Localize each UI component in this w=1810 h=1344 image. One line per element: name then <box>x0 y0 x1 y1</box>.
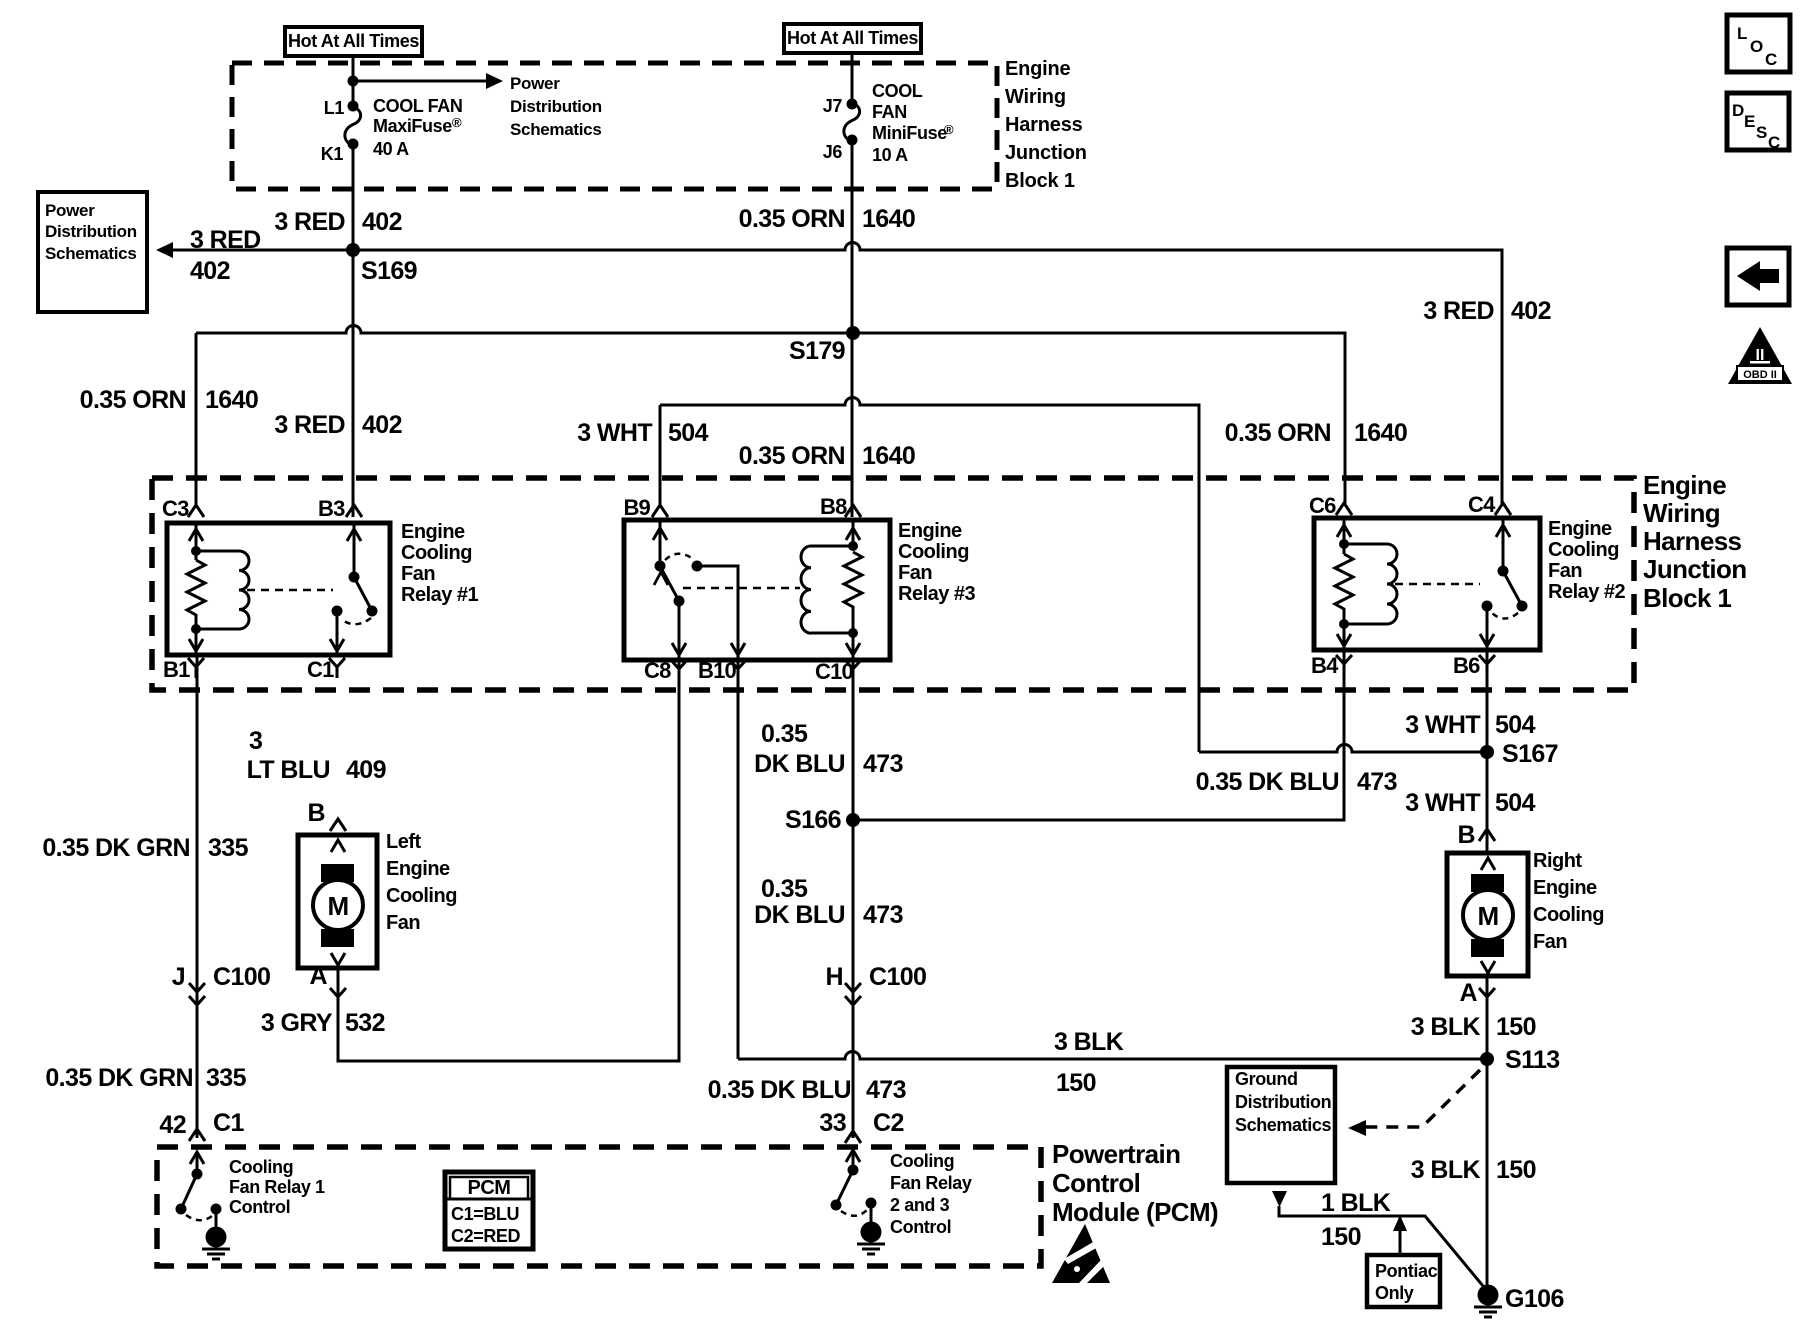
svg-text:3 RED: 3 RED <box>274 208 345 236</box>
svg-text:504: 504 <box>1495 789 1536 817</box>
svg-text:Engine: Engine <box>1005 58 1071 80</box>
svg-text:E: E <box>1744 112 1755 131</box>
svg-text:B: B <box>1458 821 1475 849</box>
svg-text:Control: Control <box>229 1197 290 1217</box>
svg-text:B: B <box>308 799 325 827</box>
svg-text:DK BLU: DK BLU <box>754 750 845 778</box>
svg-text:M: M <box>327 891 348 921</box>
svg-text:Pontiac: Pontiac <box>1375 1261 1438 1281</box>
svg-text:150: 150 <box>1321 1223 1361 1251</box>
svg-text:0.35 DK BLU: 0.35 DK BLU <box>708 1076 851 1104</box>
svg-text:1 BLK: 1 BLK <box>1321 1189 1391 1217</box>
svg-text:Hot At All Times: Hot At All Times <box>787 28 918 48</box>
svg-text:K1: K1 <box>321 144 344 164</box>
svg-text:Fan: Fan <box>1533 931 1567 953</box>
svg-text:B4: B4 <box>1311 653 1339 678</box>
svg-text:Distribution: Distribution <box>1235 1092 1331 1112</box>
svg-text:Power: Power <box>510 74 560 93</box>
svg-text:C1: C1 <box>307 657 334 682</box>
svg-text:Module (PCM): Module (PCM) <box>1052 1197 1218 1227</box>
svg-text:MiniFuse: MiniFuse <box>872 123 947 143</box>
svg-text:C100: C100 <box>213 963 270 991</box>
svg-text:Fan: Fan <box>401 563 435 585</box>
svg-text:0.35 ORN: 0.35 ORN <box>80 386 186 414</box>
svg-text:J: J <box>172 963 185 991</box>
svg-text:C10: C10 <box>815 659 854 684</box>
svg-text:D: D <box>1732 101 1744 120</box>
svg-text:Relay #3: Relay #3 <box>898 583 976 605</box>
svg-text:Fan: Fan <box>898 562 932 584</box>
svg-text:Relay #2: Relay #2 <box>1548 581 1626 603</box>
svg-text:C100: C100 <box>869 963 926 991</box>
svg-text:Cooling: Cooling <box>229 1157 293 1177</box>
svg-text:Cooling: Cooling <box>898 541 969 563</box>
svg-text:Block 1: Block 1 <box>1643 583 1731 613</box>
svg-text:150: 150 <box>1056 1069 1096 1097</box>
svg-text:402: 402 <box>362 411 402 439</box>
svg-text:Engine: Engine <box>1643 470 1726 500</box>
svg-text:409: 409 <box>346 756 386 784</box>
svg-text:S179: S179 <box>789 337 845 365</box>
svg-text:Right: Right <box>1533 850 1582 872</box>
svg-text:J7: J7 <box>823 96 843 116</box>
svg-text:Ground: Ground <box>1235 1069 1298 1089</box>
svg-text:S169: S169 <box>361 257 417 285</box>
svg-text:150: 150 <box>1496 1013 1536 1041</box>
svg-text:Left: Left <box>386 831 422 853</box>
svg-text:C2: C2 <box>873 1109 904 1137</box>
svg-text:S113: S113 <box>1505 1046 1560 1074</box>
svg-text:Engine: Engine <box>1533 877 1597 899</box>
svg-text:402: 402 <box>1511 297 1551 325</box>
svg-text:402: 402 <box>362 208 402 236</box>
svg-text:Junction: Junction <box>1643 554 1747 584</box>
svg-text:C4: C4 <box>1468 492 1496 517</box>
svg-text:MaxiFuse: MaxiFuse <box>373 116 452 136</box>
svg-text:3 WHT: 3 WHT <box>577 419 652 447</box>
svg-text:Distribution: Distribution <box>45 222 137 241</box>
svg-text:FAN: FAN <box>872 102 907 122</box>
svg-text:A: A <box>310 962 328 990</box>
svg-text:H: H <box>826 963 843 991</box>
svg-text:Control: Control <box>890 1217 951 1237</box>
svg-text:Cooling: Cooling <box>386 885 457 907</box>
svg-text:COOL: COOL <box>872 81 923 101</box>
svg-text:Fan Relay 1: Fan Relay 1 <box>229 1177 325 1197</box>
svg-text:S: S <box>1756 123 1767 142</box>
svg-text:402: 402 <box>190 257 230 285</box>
svg-text:DK BLU: DK BLU <box>754 901 845 929</box>
svg-text:COOL FAN: COOL FAN <box>373 96 462 116</box>
svg-text:1640: 1640 <box>1354 419 1407 447</box>
svg-text:OBD II: OBD II <box>1743 369 1777 381</box>
svg-text:C6: C6 <box>1309 493 1336 518</box>
svg-text:C1=BLU: C1=BLU <box>451 1204 519 1224</box>
svg-text:473: 473 <box>863 750 903 778</box>
svg-text:Fan: Fan <box>386 912 420 934</box>
svg-text:C3: C3 <box>162 496 189 521</box>
svg-text:C: C <box>1765 50 1777 69</box>
svg-text:2 and 3: 2 and 3 <box>890 1195 950 1215</box>
svg-text:PCM: PCM <box>468 1177 511 1199</box>
svg-text:Cooling: Cooling <box>1548 539 1619 561</box>
svg-text:J6: J6 <box>823 142 843 162</box>
svg-text:A: A <box>1460 979 1478 1007</box>
svg-text:Engine: Engine <box>386 858 450 880</box>
svg-text:3 BLK: 3 BLK <box>1054 1028 1124 1056</box>
svg-text:335: 335 <box>206 1064 247 1092</box>
svg-text:473: 473 <box>866 1076 906 1104</box>
svg-text:3 GRY: 3 GRY <box>261 1009 333 1037</box>
svg-text:Schematics: Schematics <box>1235 1115 1331 1135</box>
svg-text:473: 473 <box>1357 768 1397 796</box>
svg-text:B1: B1 <box>163 657 190 682</box>
svg-text:3: 3 <box>249 727 262 755</box>
svg-text:1640: 1640 <box>862 442 915 470</box>
svg-text:3 RED: 3 RED <box>1423 297 1494 325</box>
svg-text:Cooling: Cooling <box>401 542 472 564</box>
svg-text:G106: G106 <box>1505 1285 1564 1313</box>
svg-text:C2=RED: C2=RED <box>451 1226 521 1246</box>
svg-text:Powertrain: Powertrain <box>1052 1139 1180 1169</box>
svg-text:3 WHT: 3 WHT <box>1405 711 1480 739</box>
svg-text:1640: 1640 <box>862 205 915 233</box>
svg-text:B8: B8 <box>820 494 847 519</box>
svg-text:Engine: Engine <box>401 521 465 543</box>
svg-text:Cooling: Cooling <box>890 1151 954 1171</box>
svg-text:1640: 1640 <box>205 386 258 414</box>
svg-text:S166: S166 <box>785 806 841 834</box>
svg-text:Block 1: Block 1 <box>1005 170 1075 192</box>
svg-text:C8: C8 <box>644 658 671 683</box>
svg-text:3 BLK: 3 BLK <box>1411 1013 1481 1041</box>
svg-text:532: 532 <box>345 1009 385 1037</box>
svg-text:150: 150 <box>1496 1156 1536 1184</box>
svg-text:Harness: Harness <box>1005 114 1083 136</box>
svg-text:Engine: Engine <box>898 520 962 542</box>
svg-text:®: ® <box>944 122 954 137</box>
svg-text:0.35: 0.35 <box>761 875 808 903</box>
svg-text:B9: B9 <box>623 495 650 520</box>
svg-text:3 BLK: 3 BLK <box>1411 1156 1481 1184</box>
svg-text:3 RED: 3 RED <box>190 226 261 254</box>
svg-text:®: ® <box>452 115 462 130</box>
svg-text:Schematics: Schematics <box>45 244 137 263</box>
svg-text:Fan: Fan <box>1548 560 1582 582</box>
svg-text:L: L <box>1737 24 1747 43</box>
svg-text:0.35 DK BLU: 0.35 DK BLU <box>1196 768 1339 796</box>
svg-text:Control: Control <box>1052 1168 1140 1198</box>
svg-text:473: 473 <box>863 901 903 929</box>
svg-text:0.35 ORN: 0.35 ORN <box>1225 419 1331 447</box>
svg-text:42: 42 <box>159 1111 186 1139</box>
svg-text:40 A: 40 A <box>373 139 409 159</box>
svg-text:0.35: 0.35 <box>761 720 808 748</box>
svg-text:Wiring: Wiring <box>1005 86 1066 108</box>
svg-text:Harness: Harness <box>1643 526 1742 556</box>
svg-text:504: 504 <box>1495 711 1536 739</box>
svg-text:10 A: 10 A <box>872 145 908 165</box>
svg-text:B10: B10 <box>698 658 737 683</box>
svg-text:Hot At All Times: Hot At All Times <box>288 31 419 51</box>
svg-text:Only: Only <box>1375 1283 1414 1303</box>
svg-text:M: M <box>1477 901 1498 931</box>
svg-text:Wiring: Wiring <box>1643 498 1720 528</box>
svg-text:0.35 ORN: 0.35 ORN <box>739 442 845 470</box>
svg-text:B6: B6 <box>1453 653 1480 678</box>
svg-text:335: 335 <box>208 834 249 862</box>
svg-text:L1: L1 <box>324 98 345 118</box>
svg-text:C1: C1 <box>213 1109 244 1137</box>
svg-text:Distribution: Distribution <box>510 97 602 116</box>
svg-text:Relay #1: Relay #1 <box>401 584 479 606</box>
svg-text:Schematics: Schematics <box>510 120 602 139</box>
svg-text:Power: Power <box>45 201 95 220</box>
svg-text:Engine: Engine <box>1548 518 1612 540</box>
svg-text:B3: B3 <box>318 496 345 521</box>
svg-text:Junction: Junction <box>1005 142 1087 164</box>
svg-text:504: 504 <box>668 419 709 447</box>
svg-text:LT BLU: LT BLU <box>247 756 330 784</box>
svg-text:Fan Relay: Fan Relay <box>890 1173 972 1193</box>
svg-text:C: C <box>1768 133 1780 152</box>
svg-text:S167: S167 <box>1502 740 1558 768</box>
svg-text:0.35 DK GRN: 0.35 DK GRN <box>42 834 190 862</box>
svg-text:33: 33 <box>819 1109 846 1137</box>
svg-text:Cooling: Cooling <box>1533 904 1604 926</box>
svg-text:0.35 DK GRN: 0.35 DK GRN <box>45 1064 193 1092</box>
svg-text:O: O <box>1750 37 1763 56</box>
svg-text:0.35 ORN: 0.35 ORN <box>739 205 845 233</box>
svg-text:3 WHT: 3 WHT <box>1405 789 1480 817</box>
svg-text:3 RED: 3 RED <box>274 411 345 439</box>
